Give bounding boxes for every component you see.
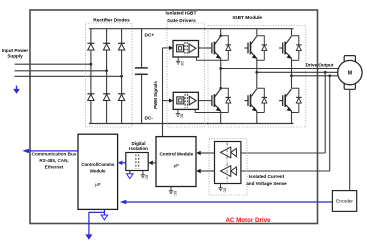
svg-text:Control Module: Control Module [159,151,193,156]
capacitor C1 DC bus [135,29,148,124]
wire sense 1 horizontal [241,152,325,154]
svg-text:DC: DC [145,175,149,180]
svg-text:IGBT Module: IGBT Module [233,15,263,21]
svg-text:DC: DC [173,191,177,196]
label Isolated IGBT Gate Drivers [166,10,197,24]
diode freewheel Q3 [257,36,267,61]
transistor Q4 (bottom phase B IGBT) [244,72,256,123]
diode freewheel Q6 [292,88,302,112]
diode freewheel Q1 [221,36,231,61]
diode freewheel Q4 [257,88,267,112]
ground DC under Control Module [169,187,177,197]
wire phase B input [15,70,107,72]
diode D1 (top leg1) [87,43,94,50]
svg-text:Module: Module [90,168,106,173]
wire sense ch1 to control module with arrow [196,151,214,155]
transistor Q2 (bottom phase A IGBT) [212,69,222,124]
wire U1 output to Q1 gate [199,47,212,49]
junction phase C output [290,74,293,77]
junction phase C [120,75,123,78]
arrow: input power flow (blue) [13,86,20,94]
motor M [338,56,362,90]
svg-text:Rectifier Diodes: Rectifier Diodes [93,18,130,24]
svg-text:Drive Output: Drive Output [306,63,334,68]
svg-text:Encoder: Encoder [336,199,353,204]
wire phase A to motor [221,68,339,70]
wire blue ground branch [85,212,104,239]
wire phase C input [15,75,122,77]
svg-text:AC Motor Drive: AC Motor Drive [225,217,271,224]
op-amp U1 gate driver top [173,41,199,58]
svg-text:DC-: DC- [145,116,154,122]
op-amp sense channel 1 [221,147,237,158]
ground DC under U1 [176,57,184,67]
wire communication bus (blue) [22,149,78,154]
wire motor shaft to encoder [349,89,351,190]
label DC- [145,116,154,122]
diode D6 (bottom leg3) [118,94,125,101]
wire digital isolation to comms module (blue arrow) [118,161,126,166]
transistor Q6 (bottom phase C IGBT) [279,76,291,124]
label Communication Bus [32,152,77,170]
wire PWM to gate driver U1 with arrow [163,46,174,50]
svg-text:M: M [348,71,352,77]
junction sense tap 2 [328,74,331,77]
op-amp U2 gate driver bottom [173,92,198,109]
ground DC under U2 [176,109,184,119]
dashed box: Isolated IGBT Gate Drivers [167,23,205,127]
label: Rectifier Diodes [93,18,130,24]
wire sense tap 1 vertical [324,72,326,153]
label Isolated Current and Voltage Sense [246,174,287,186]
wire U2 output to Q2 gate [198,100,211,102]
label Drive Output [306,63,334,68]
svg-text:DC: DC [222,188,226,193]
block isolated sense amplifiers [215,142,241,184]
diode freewheel Q5 [292,36,302,61]
ground earth (blue) under comms module [101,209,108,219]
rectifier leg 3 wire [121,29,123,124]
wire U1 kelvin return [196,57,220,60]
ground DC under sense block [218,184,226,194]
svg-text:DC: DC [180,114,184,119]
svg-text:Ethernet: Ethernet [45,164,64,169]
wire PWM bus vertical [162,48,164,137]
diode D2 (top leg2) [103,43,110,50]
junction phase A output [219,67,222,70]
node: Input Power Supply label [2,48,28,59]
svg-text:DC: DC [180,62,184,67]
dashed box: Isolated Current and Voltage Sense [209,139,247,195]
wire PWM to gate driver U2 with arrow [163,98,174,102]
junction phase B output [255,71,258,74]
junction phase A [90,63,93,66]
transistor Q3 (top phase B IGBT) [244,29,256,73]
label AC Motor Drive [225,217,271,224]
diode D5 (bottom leg2) [103,94,110,101]
wire encoder feedback (blue) [120,200,333,205]
dashed box: IGBT Module [208,26,306,128]
transistor Q5 (top phase C IGBT) [279,29,291,76]
dashed box: Rectifier Diodes [86,23,133,127]
svg-text:Communication Bus: Communication Bus [32,152,77,157]
svg-text:Gate Drivers: Gate Drivers [167,18,196,24]
wire sense ch2 to control module with arrow [196,169,214,173]
block Control Module [156,137,196,187]
svg-text:Isolation: Isolation [129,146,148,151]
diode D4 (bottom leg1) [87,94,94,101]
wire phase A input [15,63,91,65]
svg-text:and Voltage Sense: and Voltage Sense [246,181,287,186]
svg-text:Isolated Current: Isolated Current [249,174,285,179]
svg-text:Isolated IGBT: Isolated IGBT [166,10,197,16]
svg-text:µP: µP [95,182,101,187]
op-amp sense channel 2 [221,166,237,177]
svg-text:RS-485, CAN,: RS-485, CAN, [39,158,68,163]
label PWM Signals (rotated) [153,81,158,109]
transistor Q1 (top phase A IGBT) [212,29,222,69]
junction phase B [105,69,108,72]
svg-text:Input Power: Input Power [2,48,28,53]
svg-text:µP: µP [174,163,180,168]
ground earth (blue) under digital isolation [127,171,134,179]
wire DC+ rail [89,28,294,30]
rectifier leg 1 wire [90,29,92,124]
svg-text:Supply: Supply [7,54,23,59]
ground DC under digital isolation [141,171,149,181]
block Encoder [332,191,356,212]
diode D3 (top leg3) [118,43,125,50]
svg-text:DC+: DC+ [145,32,155,38]
label DC+ [145,32,155,38]
block Digital Isolation [126,141,148,170]
wire phase C to motor [292,75,338,77]
rectifier leg 2 wire [106,29,108,124]
svg-text:PWM Signals: PWM Signals [153,81,158,109]
block Control/Comms Module [78,134,118,209]
wire U2 kelvin return [195,109,221,112]
enclosure: AC motor drive outer box [30,10,318,224]
isolation barrier in sense block [226,143,228,183]
wire sense 2 horizontal [241,170,330,172]
wire phase B to motor [257,71,338,73]
label IGBT Module [233,15,263,21]
wire DC- rail [89,123,294,125]
svg-text:Control/Comms: Control/Comms [81,162,114,167]
diode freewheel Q2 [221,88,231,112]
wire sense tap 2 vertical [329,76,331,171]
wire control module to digital isolation with arrow [148,161,156,165]
junction sense tap 1 [324,71,327,74]
